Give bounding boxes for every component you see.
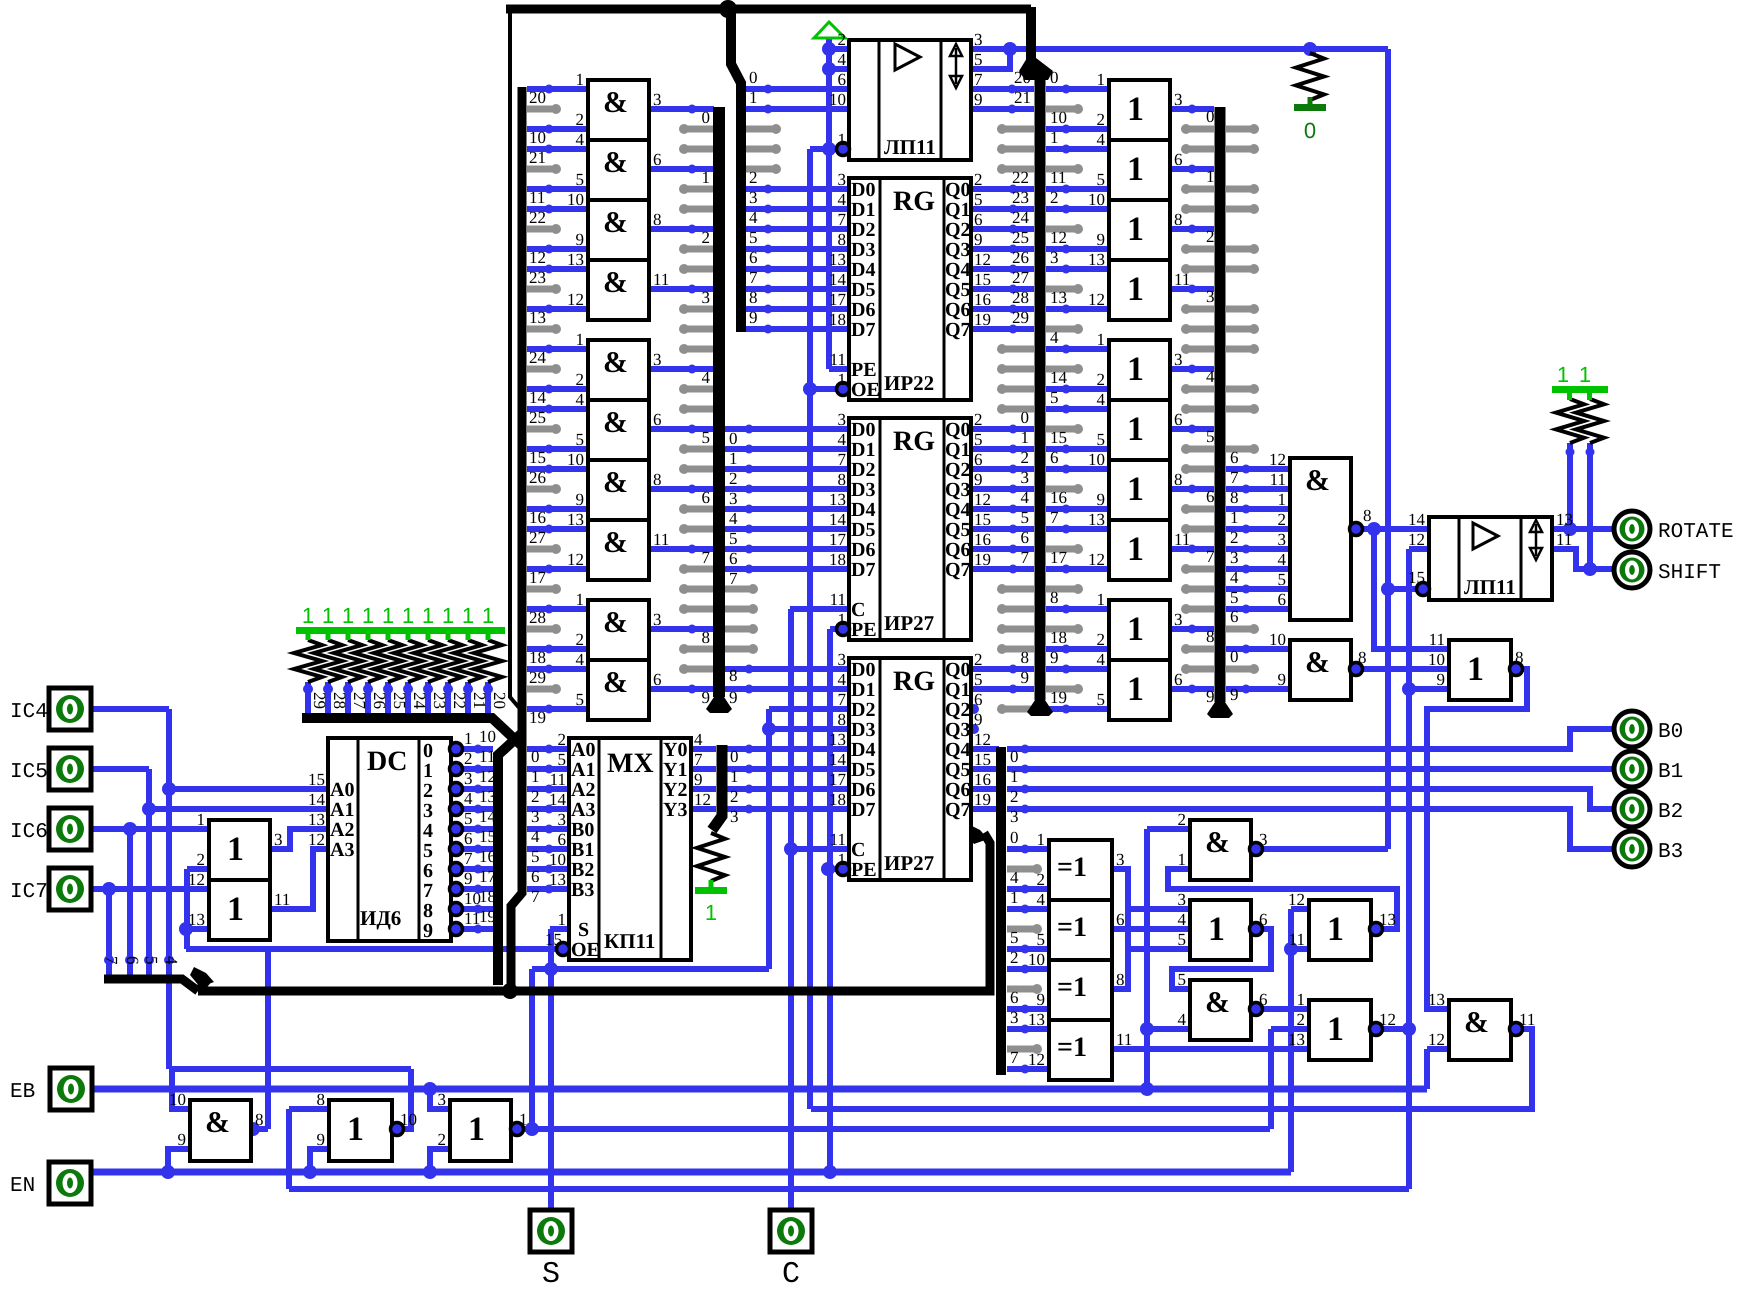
svg-text:ROTATE: ROTATE — [1658, 521, 1734, 544]
OR-left g2 out to A3 — [270, 849, 328, 909]
svg-text:1: 1 — [1127, 271, 1144, 308]
svg-text:1: 1 — [705, 900, 717, 925]
svg-text:D5: D5 — [851, 279, 875, 301]
svg-text:11: 11 — [653, 270, 669, 289]
svg-text:13: 13 — [1088, 510, 1105, 529]
svg-text:3: 3 — [558, 810, 567, 829]
svg-text:8: 8 — [653, 470, 662, 489]
MX Y outputs into Y-bus — [691, 746, 716, 752]
svg-text:26: 26 — [1012, 248, 1029, 267]
svg-text:1: 1 — [302, 603, 314, 628]
svg-text:11: 11 — [830, 350, 846, 369]
svg-text:7: 7 — [1206, 547, 1215, 566]
svg-text:6: 6 — [702, 488, 711, 507]
svg-text:4: 4 — [531, 827, 540, 846]
svg-text:&: & — [603, 86, 628, 119]
svg-text:3: 3 — [653, 350, 662, 369]
svg-text:1: 1 — [422, 603, 434, 628]
svg-text:3: 3 — [1278, 530, 1287, 549]
svg-text:8: 8 — [1050, 588, 1059, 607]
svg-text:12: 12 — [974, 730, 991, 749]
svg-text:6: 6 — [1230, 607, 1239, 626]
svg-text:C: C — [851, 839, 865, 861]
svg-text:17: 17 — [829, 290, 847, 309]
svg-text:Q0: Q0 — [945, 659, 971, 681]
svg-text:1: 1 — [1297, 990, 1306, 1009]
OR D1 — [1309, 900, 1371, 960]
svg-text:3: 3 — [838, 650, 847, 669]
svg-text:6: 6 — [464, 829, 473, 848]
svg-text:B0: B0 — [1658, 721, 1683, 744]
bus3 exits to OR column — [1046, 86, 1109, 92]
svg-text:0: 0 — [531, 747, 540, 766]
x769 vertical (S-net to D2/D3) — [766, 709, 772, 969]
select vertical line from green arrow — [826, 36, 832, 369]
svg-text:11: 11 — [1429, 630, 1445, 649]
svg-text:3: 3 — [749, 188, 758, 207]
LP11#1 outputs 7,9 to bus3 — [971, 86, 1034, 92]
svg-text:9: 9 — [974, 710, 983, 729]
svg-text:7: 7 — [838, 450, 847, 469]
svg-text:Q7: Q7 — [945, 319, 971, 341]
svg-text:4: 4 — [1021, 488, 1030, 507]
svg-text:4: 4 — [162, 956, 181, 965]
svg-text:1: 1 — [558, 910, 567, 929]
bus 4 (OR outputs bus) — [1215, 107, 1226, 702]
svg-text:1: 1 — [1097, 590, 1106, 609]
svg-text:RG: RG — [893, 666, 935, 697]
svg-text:10: 10 — [1088, 450, 1105, 469]
svg-text:6: 6 — [974, 450, 983, 469]
svg-text:A3: A3 — [330, 839, 354, 861]
svg-text:20: 20 — [1014, 68, 1031, 87]
svg-text:6: 6 — [1259, 990, 1268, 1009]
OR D2 — [1309, 1000, 1371, 1060]
svg-text:16: 16 — [974, 530, 991, 549]
svg-text:6: 6 — [423, 860, 433, 882]
DC A input wires — [169, 786, 328, 792]
svg-text:6: 6 — [1116, 910, 1125, 929]
thin left bus line — [510, 9, 521, 710]
svg-text:=1: =1 — [1057, 912, 1087, 943]
svg-text:5: 5 — [558, 750, 567, 769]
svg-text:6: 6 — [729, 549, 738, 568]
svg-text:A0: A0 — [330, 779, 354, 801]
terminal IC7 — [49, 868, 91, 910]
RG1 PE wire — [829, 366, 849, 372]
svg-text:11: 11 — [1519, 1010, 1535, 1029]
svg-text:3: 3 — [730, 807, 739, 826]
svg-text:14: 14 — [549, 790, 567, 809]
svg-text:26: 26 — [370, 692, 389, 709]
resistor R shift pull-up — [1576, 399, 1604, 443]
OR bottom g2 — [329, 1100, 392, 1161]
svg-text:2: 2 — [1050, 188, 1059, 207]
svg-text:4: 4 — [1097, 390, 1106, 409]
svg-text:4: 4 — [1010, 868, 1019, 887]
svg-text:0: 0 — [1021, 408, 1030, 427]
svg-text:1: 1 — [1557, 362, 1569, 387]
svg-text:12: 12 — [529, 248, 546, 267]
svg-text:ИР22: ИР22 — [884, 371, 934, 395]
svg-text:17: 17 — [829, 770, 847, 789]
svg-text:3: 3 — [702, 288, 711, 307]
svg-text:17: 17 — [829, 530, 847, 549]
svg-text:10: 10 — [1028, 950, 1045, 969]
svg-text:6: 6 — [1174, 670, 1183, 689]
svg-text:2: 2 — [1010, 948, 1019, 967]
svg-text:SHIFT: SHIFT — [1658, 562, 1721, 585]
svg-text:3: 3 — [1206, 287, 1215, 306]
svg-text:7: 7 — [974, 70, 983, 89]
svg-text:3: 3 — [653, 610, 662, 629]
svg-text:&: & — [1305, 646, 1330, 679]
svg-text:25: 25 — [529, 408, 546, 427]
svg-text:13: 13 — [1050, 288, 1067, 307]
svg-text:16: 16 — [974, 290, 991, 309]
svg-text:8: 8 — [653, 210, 662, 229]
svg-text:10: 10 — [1088, 190, 1105, 209]
svg-text:5: 5 — [1050, 388, 1059, 407]
AND C in4 from x1147 — [1147, 1026, 1190, 1032]
svg-text:IC6: IC6 — [10, 821, 48, 844]
svg-text:B3: B3 — [1658, 841, 1683, 864]
svg-text:3: 3 — [1259, 830, 1268, 849]
svg-text:9: 9 — [1230, 685, 1239, 704]
svg-text:A3: A3 — [571, 799, 595, 821]
svg-text:9: 9 — [464, 869, 473, 888]
svg-text:Q2: Q2 — [945, 699, 971, 721]
svg-text:5: 5 — [1021, 508, 1030, 527]
AND A in1 loop from OR-D1 out — [1168, 869, 1397, 929]
svg-text:7: 7 — [1010, 1048, 1019, 1067]
EB long row — [92, 1086, 1427, 1093]
svg-text:1: 1 — [1127, 151, 1144, 188]
svg-text:9: 9 — [1206, 687, 1215, 706]
svg-text:12: 12 — [1379, 1010, 1396, 1029]
OR E in9 from x1409 dot — [1409, 686, 1449, 692]
svg-text:27: 27 — [529, 528, 547, 547]
OR B out loop to AND C in5 — [1172, 929, 1271, 989]
svg-text:C: C — [851, 599, 865, 621]
svg-text:19: 19 — [479, 907, 496, 926]
svg-text:1: 1 — [362, 603, 374, 628]
svg-text:17: 17 — [529, 568, 547, 587]
C riser — [788, 609, 794, 1210]
svg-text:1: 1 — [702, 168, 711, 187]
svg-text:B0: B0 — [571, 819, 594, 841]
svg-text:1: 1 — [442, 603, 454, 628]
svg-text:3: 3 — [1174, 610, 1183, 629]
svg-text:Q0: Q0 — [945, 419, 971, 441]
AND1 out riser x268 — [251, 1126, 268, 1132]
svg-text:RG: RG — [893, 186, 935, 217]
AND bottom-left — [190, 1100, 251, 1161]
svg-text:D3: D3 — [851, 239, 875, 261]
svg-text:5: 5 — [531, 847, 540, 866]
terminal IC6 — [49, 808, 91, 850]
svg-text:18: 18 — [1050, 628, 1067, 647]
svg-text:12: 12 — [1088, 550, 1105, 569]
svg-text:13: 13 — [479, 787, 496, 806]
svg-text:9: 9 — [1097, 230, 1106, 249]
svg-text:1: 1 — [382, 603, 394, 628]
OR gate pins 4,5 out 6 — [1109, 140, 1170, 200]
multiplexer MX KP11 — [569, 738, 691, 960]
svg-text:D0: D0 — [851, 659, 875, 681]
svg-text:&: & — [603, 146, 628, 179]
svg-text:10: 10 — [567, 450, 584, 469]
svg-text:6: 6 — [558, 830, 567, 849]
svg-text:8: 8 — [1021, 648, 1030, 667]
svg-text:13: 13 — [1428, 990, 1445, 1009]
svg-text:10: 10 — [567, 190, 584, 209]
AND F — [1449, 1000, 1511, 1060]
svg-text:15: 15 — [974, 750, 991, 769]
svg-text:19: 19 — [974, 550, 991, 569]
svg-text:2: 2 — [438, 1130, 447, 1149]
terminal SHIFT — [1614, 552, 1650, 588]
svg-text:1: 1 — [1206, 167, 1215, 186]
svg-text:5: 5 — [974, 50, 983, 69]
svg-text:6: 6 — [653, 670, 662, 689]
svg-text:3: 3 — [1174, 350, 1183, 369]
svg-text:1: 1 — [468, 1111, 485, 1148]
svg-text:A2: A2 — [330, 819, 354, 841]
svg-text:14: 14 — [529, 388, 547, 407]
OR E out loop down to AND F in13 — [1427, 669, 1527, 1009]
svg-text:9: 9 — [974, 90, 983, 109]
svg-text:10: 10 — [549, 850, 566, 869]
svg-text:2: 2 — [1278, 510, 1287, 529]
svg-text:5: 5 — [1037, 930, 1046, 949]
svg-text:11: 11 — [653, 530, 669, 549]
svg-text:ЛП11: ЛП11 — [884, 135, 936, 159]
svg-text:9: 9 — [423, 920, 433, 942]
green input arrow — [814, 22, 845, 38]
svg-text:1: 1 — [1097, 70, 1106, 89]
svg-text:11: 11 — [1050, 168, 1066, 187]
OR-left g1 in2 / g2 in13 net — [187, 866, 209, 872]
MX S pin wire — [550, 926, 569, 932]
svg-text:9: 9 — [178, 1130, 187, 1149]
svg-text:ИР27: ИР27 — [884, 851, 934, 875]
svg-text:Q7: Q7 — [945, 559, 971, 581]
svg-text:6: 6 — [1010, 988, 1019, 1007]
svg-text:1: 1 — [1127, 531, 1144, 568]
terminal EN — [49, 1162, 91, 1204]
svg-text:2: 2 — [1097, 630, 1106, 649]
LP11#2 out11 to SHIFT — [1552, 549, 1613, 569]
svg-text:4: 4 — [1097, 130, 1106, 149]
svg-text:3: 3 — [1010, 807, 1019, 826]
LP11#2 out13 to ROTATE — [1552, 526, 1613, 532]
svg-text:13: 13 — [1088, 250, 1105, 269]
svg-text:Q6: Q6 — [945, 779, 971, 801]
svg-text:28: 28 — [330, 692, 349, 709]
EB jog to OR g3 in3 — [430, 1089, 450, 1109]
RG1 OE wire — [810, 386, 837, 392]
RG3 C wire — [790, 846, 849, 852]
OR gate pins 1,2 out 3 — [1109, 600, 1170, 660]
AND gate, pins 13,12 out 11 — [588, 520, 649, 580]
svg-text:Y1: Y1 — [663, 759, 687, 781]
svg-text:7: 7 — [729, 569, 738, 588]
RG1 ИР22 — [849, 178, 971, 400]
svg-text:Y2: Y2 — [663, 779, 687, 801]
svg-text:21: 21 — [470, 692, 489, 709]
IC6 wire — [91, 826, 209, 832]
AND1 in10 tap — [172, 1069, 190, 1109]
RG3 Q0,Q1 into bus3 — [971, 666, 1034, 672]
XOR gate 4 — [1049, 1020, 1112, 1080]
svg-text:13: 13 — [1379, 910, 1396, 929]
AND A in2 from x1147 — [1147, 826, 1190, 832]
svg-text:15: 15 — [1408, 568, 1425, 587]
svg-text:29: 29 — [1012, 308, 1029, 327]
svg-text:Q5: Q5 — [945, 519, 971, 541]
svg-text:2: 2 — [197, 850, 206, 869]
svg-text:16: 16 — [529, 508, 546, 527]
MX Y0-Y3 rows to RG3 D4-D7 — [727, 746, 849, 752]
svg-text:4: 4 — [749, 208, 758, 227]
svg-text:18: 18 — [479, 887, 496, 906]
svg-text:B2: B2 — [1658, 801, 1683, 824]
svg-text:19: 19 — [974, 790, 991, 809]
svg-text:DC: DC — [367, 746, 407, 777]
svg-text:A1: A1 — [330, 799, 354, 821]
bus4 exits to 8-input NAND — [1226, 466, 1290, 472]
LP11#2 pin12 wire — [1409, 546, 1429, 552]
OR g2 in8 from row1189 riser — [289, 1106, 329, 1112]
svg-text:3: 3 — [729, 489, 738, 508]
svg-text:1: 1 — [838, 610, 847, 629]
decoder DC ID6 — [328, 738, 451, 941]
svg-text:2: 2 — [464, 749, 473, 768]
svg-text:11: 11 — [830, 590, 846, 609]
svg-text:0: 0 — [749, 68, 758, 87]
svg-text:6: 6 — [974, 690, 983, 709]
x1147 vertical EB net — [1144, 829, 1150, 1089]
svg-text:4: 4 — [1206, 367, 1215, 386]
svg-text:8: 8 — [838, 230, 847, 249]
AND A (out to B3 riser) — [1190, 820, 1251, 880]
svg-text:12: 12 — [974, 490, 991, 509]
svg-text:24: 24 — [529, 348, 547, 367]
OR gate pins 10,9 out 8 — [1109, 200, 1170, 260]
svg-text:5: 5 — [702, 428, 711, 447]
svg-text:Y0: Y0 — [663, 739, 687, 761]
svg-text:8: 8 — [317, 1090, 326, 1109]
svg-text:7: 7 — [838, 690, 847, 709]
svg-text:3: 3 — [974, 30, 983, 49]
svg-text:7: 7 — [531, 887, 540, 906]
svg-text:11: 11 — [274, 890, 290, 909]
busA exits to RG2 D0-D7 — [725, 426, 849, 432]
svg-text:13: 13 — [549, 870, 566, 889]
svg-text:1: 1 — [1127, 351, 1144, 388]
svg-text:Q5: Q5 — [945, 759, 971, 781]
svg-text:1: 1 — [730, 767, 739, 786]
IC4 wire + riser — [91, 706, 169, 712]
bus 5 (Q4-7 / XOR feed bus) — [996, 747, 1006, 1075]
svg-text:7: 7 — [423, 880, 433, 902]
svg-text:8: 8 — [729, 666, 738, 685]
svg-text:&: & — [1305, 464, 1330, 497]
svg-text:9: 9 — [702, 688, 711, 707]
bus 3 (Q collect bus) — [1026, 7, 1036, 62]
svg-text:ИР27: ИР27 — [884, 611, 934, 635]
svg-text:D4: D4 — [851, 739, 875, 761]
AND gate, pins 4,5 out 6 — [588, 660, 649, 720]
enable net vertical x810 — [807, 149, 813, 1109]
svg-text:13: 13 — [829, 250, 846, 269]
EN riser feeds OR D1 — [1291, 906, 1309, 912]
svg-text:4: 4 — [838, 670, 847, 689]
svg-text:S: S — [542, 1258, 560, 1290]
svg-text:Q0: Q0 — [945, 179, 971, 201]
svg-text:12: 12 — [188, 870, 205, 889]
svg-text:1: 1 — [1127, 471, 1144, 508]
x532 riser to S-net row 969 — [529, 969, 535, 1129]
AND C — [1190, 980, 1251, 1040]
XOR out6 to OR-B in4 — [1112, 926, 1190, 932]
svg-text:1: 1 — [519, 1110, 528, 1129]
svg-text:11: 11 — [1289, 930, 1305, 949]
svg-text:2: 2 — [1206, 227, 1215, 246]
svg-text:14: 14 — [829, 270, 847, 289]
svg-text:20: 20 — [490, 692, 509, 709]
svg-text:5: 5 — [1010, 928, 1019, 947]
svg-text:17: 17 — [479, 867, 497, 886]
svg-text:D1: D1 — [851, 439, 875, 461]
svg-text:B2: B2 — [571, 859, 594, 881]
OR gate pins 4,5 out 6 — [1109, 660, 1170, 720]
svg-text:10: 10 — [1050, 108, 1067, 127]
svg-text:10: 10 — [529, 128, 546, 147]
svg-text:11: 11 — [1116, 1030, 1132, 1049]
svg-text:4: 4 — [1037, 890, 1046, 909]
svg-text:5: 5 — [1097, 170, 1106, 189]
svg-text:1: 1 — [1178, 850, 1187, 869]
AND F out loop to x811 riser — [811, 1029, 1532, 1109]
svg-text:D4: D4 — [851, 259, 875, 281]
svg-text:3: 3 — [1230, 548, 1239, 567]
svg-text:Q3: Q3 — [945, 479, 971, 501]
svg-text:6: 6 — [749, 248, 758, 267]
svg-text:D5: D5 — [851, 519, 875, 541]
svg-text:6: 6 — [1174, 410, 1183, 429]
svg-text:OE: OE — [851, 379, 880, 401]
svg-text:1: 1 — [838, 130, 847, 149]
svg-text:22: 22 — [1012, 168, 1029, 187]
svg-text:15: 15 — [974, 510, 991, 529]
svg-text:5: 5 — [1206, 427, 1215, 446]
svg-text:6: 6 — [1259, 910, 1268, 929]
svg-text:29: 29 — [310, 692, 329, 709]
svg-text:13: 13 — [567, 250, 584, 269]
IC5 wire + riser — [91, 766, 149, 772]
busA exits to RG3 D0,D1 — [725, 666, 849, 672]
XOR gate 2 — [1049, 900, 1112, 960]
svg-text:=1: =1 — [1057, 972, 1087, 1003]
svg-text:11: 11 — [1556, 530, 1572, 549]
x830 PE/EN net — [827, 629, 833, 1172]
svg-text:4: 4 — [423, 820, 433, 842]
svg-text:3: 3 — [838, 170, 847, 189]
svg-text:D6: D6 — [851, 779, 875, 801]
svg-text:3: 3 — [1116, 850, 1125, 869]
